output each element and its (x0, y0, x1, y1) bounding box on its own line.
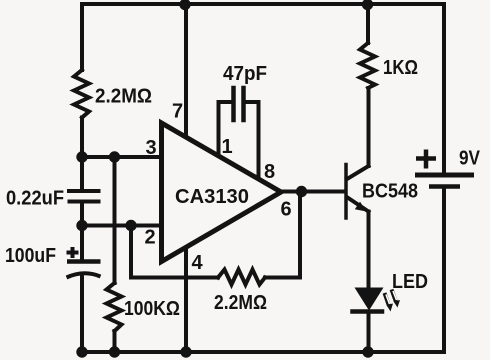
wire LED to bottom rail (367, 312, 371, 352)
wire pin4 (184, 246, 188, 352)
node pin3 100K (109, 151, 120, 162)
wire 47pF right stub (245, 100, 259, 104)
wire pin7 (184, 4, 188, 140)
node pin2 feedback (125, 220, 136, 231)
wire pin2 (82, 224, 163, 228)
capacitor C2 plus sign (67, 247, 79, 258)
node bottom LED (362, 346, 373, 357)
wire bottom rail (82, 350, 444, 354)
svg-text:7: 7 (172, 101, 183, 123)
LED D1 triangle (355, 288, 384, 311)
wire feedback down from pin2 node (129, 226, 133, 278)
LED light arrow 2 (392, 290, 401, 308)
svg-text:BC548: BC548 (362, 181, 418, 203)
svg-text:6: 6 (280, 199, 291, 221)
wire left rail: cap to pin2 node (80, 204, 84, 260)
wire 1K to collector (367, 88, 371, 166)
node pin2 left (76, 220, 87, 231)
wire left rail: top to resistor (80, 4, 84, 70)
op-amp U1 CA3130 triangle (162, 123, 282, 262)
node bottom pin4 (180, 346, 191, 357)
wire 1K top (366, 4, 370, 43)
svg-text:100uF: 100uF (5, 245, 56, 267)
capacitor C3 47pF plates (234, 88, 244, 120)
wire feedback horizontal left (131, 276, 218, 280)
svg-text:8: 8 (264, 161, 275, 183)
wire pin8 leg (257, 102, 261, 181)
node top 1K (362, 0, 373, 10)
svg-text:47pF: 47pF (223, 63, 267, 85)
svg-text:LED: LED (392, 271, 428, 293)
wire pin1 leg (217, 102, 221, 157)
svg-text:1KΩ: 1KΩ (383, 57, 418, 79)
capacitor C2 100uF curved plate (67, 273, 101, 277)
resistor R2 100K zigzag (107, 283, 122, 331)
svg-text:100KΩ: 100KΩ (124, 298, 180, 320)
battery B1 short plate (429, 184, 460, 189)
wire emitter to LED (367, 212, 371, 289)
node bottom 100K (109, 346, 120, 357)
resistor R4 1K zigzag (360, 43, 375, 88)
resistor R3 2.2M feedback zigzag (218, 270, 265, 285)
wire 47pF left stub (219, 100, 233, 104)
wire right rail upper (442, 4, 446, 172)
svg-text:CA3130: CA3130 (175, 186, 249, 208)
transistor Q1 collector diagonal (347, 166, 369, 179)
wire right rail lower (442, 188, 446, 352)
transistor Q1 base bar (344, 165, 348, 219)
svg-text:2.2MΩ: 2.2MΩ (214, 292, 267, 314)
wire pin3 (82, 155, 163, 159)
node output pin6 (296, 186, 307, 197)
wire opamp output pin6 (281, 190, 345, 194)
svg-text:4: 4 (191, 252, 203, 274)
battery plus sign (416, 150, 436, 169)
wire left rail: 100uF to bottom (80, 276, 84, 352)
LED light arrow 1 (385, 293, 394, 312)
svg-text:0.22uF: 0.22uF (6, 188, 64, 210)
wire 100K column: pin3 node down (113, 157, 117, 283)
resistor R1 2.2M zigzag (74, 70, 89, 118)
svg-text:2.2MΩ: 2.2MΩ (95, 86, 152, 108)
svg-text:2: 2 (144, 227, 155, 249)
wire top rail (82, 2, 444, 6)
svg-text:1: 1 (221, 136, 232, 158)
svg-text:9V: 9V (459, 148, 481, 170)
wire left rail: resistor to pin3 node (80, 118, 84, 190)
LED D1 cathode bar (353, 309, 383, 314)
transistor Q1 emitter arrowhead (355, 202, 367, 212)
node pin3 left (76, 151, 87, 162)
node bottom left (76, 346, 87, 357)
capacitor C1 0.22uF plates (67, 191, 101, 202)
wire feedback up to output (298, 192, 302, 278)
wire 100K to bottom rail (113, 331, 117, 352)
battery B1 long plate (415, 173, 474, 178)
capacitor C2 100uF plus plate (67, 259, 101, 264)
wire feedback horizontal right (265, 276, 300, 280)
svg-text:3: 3 (145, 137, 156, 159)
node top pin7 (179, 0, 190, 10)
transistor Q1 emitter diagonal (348, 198, 369, 212)
